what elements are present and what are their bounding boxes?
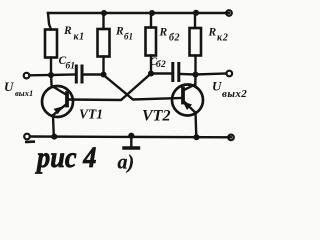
wire R_b2 top lead: [150, 13, 152, 28]
wire cross-coupling B: node B2 to VT1 base: [69, 74, 152, 101]
svg-text:б1: б1: [124, 32, 133, 42]
svg-text:R: R: [159, 27, 168, 39]
resistor R_k2: [190, 28, 202, 56]
wire VT1 emitter: [52, 116, 55, 137]
label R_b1: [115, 26, 133, 42]
resistor R_k1: [45, 30, 57, 58]
wire node K1 to C_b1: [51, 73, 75, 76]
label C_b1: [59, 55, 76, 72]
wire C_b1 to node B2: [84, 73, 104, 75]
svg-text:VT1: VT1: [79, 107, 103, 122]
transistor VT1: [42, 86, 73, 117]
label U_out1: [4, 79, 33, 98]
wire R_k1 bottom lead: [50, 58, 52, 76]
wire R_b1 top lead: [102, 13, 104, 29]
ground: [124, 136, 139, 148]
terminal bottom left: [24, 134, 30, 140]
svg-text:а): а): [118, 152, 135, 174]
wire right output: [196, 74, 227, 75]
wire cross-coupling A: node B1 to VT2 base: [104, 75, 182, 100]
svg-text:рис 4: рис 4: [34, 142, 96, 175]
label R_k1: [63, 25, 85, 43]
wire VT2 collector: [194, 75, 197, 86]
node top K2: [193, 10, 199, 16]
wire VT2 emitter: [194, 113, 197, 138]
svg-text:к2: к2: [217, 33, 229, 44]
node dots: [48, 10, 200, 141]
svg-text:U: U: [4, 79, 14, 94]
terminal U_out2: [227, 71, 233, 77]
svg-text:вых1: вых1: [15, 88, 33, 98]
wire R_k1 top lead: [48, 13, 51, 30]
label R_b2: [159, 27, 181, 44]
svg-text:U: U: [212, 79, 222, 94]
resistor R_b1: [98, 29, 110, 57]
wire R_b1 bottom lead: [102, 57, 104, 75]
wire R_b2 bottom lead: [150, 56, 152, 74]
terminal +Uc top right: [226, 10, 232, 16]
terminal U_out1: [24, 73, 30, 79]
wire C_b2 to node K2: [181, 73, 196, 76]
svg-text:R: R: [63, 25, 72, 37]
label R_k2: [208, 27, 229, 44]
node top B2: [149, 10, 155, 16]
svg-text:б2: б2: [169, 33, 180, 44]
wire top rail: [48, 12, 229, 14]
svg-text:R: R: [115, 26, 124, 38]
wire R_k2 top lead: [194, 13, 196, 28]
label C_b2: [150, 56, 167, 70]
terminal bottom right: [228, 135, 234, 141]
label U_out2: [212, 79, 247, 101]
svg-text:VT2: VT2: [142, 107, 170, 124]
node B1: [100, 71, 106, 77]
terminals: [24, 10, 234, 140]
wire node B2r to C_b2: [151, 72, 171, 74]
node K1: [48, 72, 54, 78]
node K2: [192, 71, 198, 77]
svg-text:R: R: [208, 27, 217, 39]
wire bottom rail: [31, 135, 232, 138]
wire left output: [30, 74, 51, 77]
node E2: [193, 134, 199, 140]
resistor R_b2: [146, 28, 157, 56]
node top B1: [101, 10, 107, 16]
wire VT1 collector: [50, 75, 53, 87]
wire R_k2 bottom lead: [194, 56, 196, 75]
capacitor C_b2: [173, 64, 179, 81]
transistor VT2: [172, 85, 203, 116]
stray mark above fig label: [25, 140, 35, 143]
node gnd: [128, 133, 134, 139]
svg-text:б2: б2: [156, 59, 166, 70]
node E1: [51, 134, 57, 140]
svg-text:к1: к1: [74, 32, 85, 43]
svg-text:вых2: вых2: [222, 88, 247, 100]
node B2: [148, 70, 154, 76]
capacitor C_b1: [76, 66, 82, 82]
svg-text:б1: б1: [66, 61, 76, 72]
